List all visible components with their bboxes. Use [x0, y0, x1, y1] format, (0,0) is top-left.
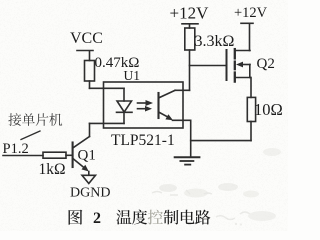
svg-text:Q1: Q1	[78, 148, 96, 164]
svg-text:1kΩ: 1kΩ	[39, 161, 66, 178]
svg-text:3.3kΩ: 3.3kΩ	[195, 33, 235, 50]
svg-text:Q2: Q2	[257, 56, 275, 72]
svg-text:+12V: +12V	[170, 3, 210, 22]
svg-text:DGND: DGND	[70, 186, 110, 201]
svg-text:P1.2: P1.2	[3, 141, 29, 157]
svg-text:U1: U1	[124, 68, 141, 83]
svg-text:VCC: VCC	[70, 30, 103, 47]
svg-text:2: 2	[93, 210, 101, 227]
svg-text:TLP521-1: TLP521-1	[111, 132, 175, 149]
svg-text:10Ω: 10Ω	[254, 100, 283, 119]
svg-text:+12V: +12V	[234, 5, 268, 21]
